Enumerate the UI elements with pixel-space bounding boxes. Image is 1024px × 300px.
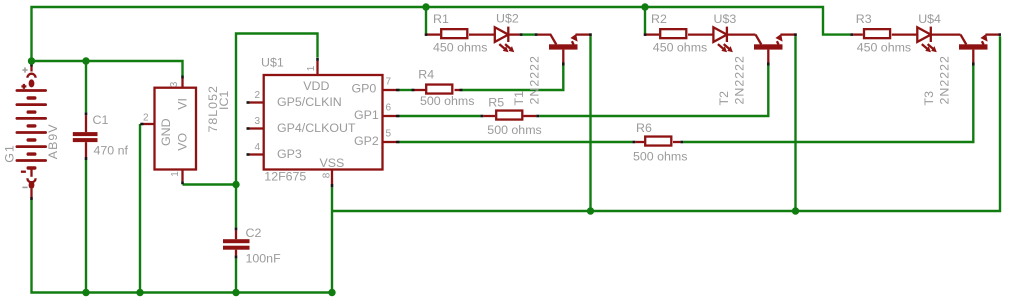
wire GP2 to R6 <box>400 141 633 143</box>
junction node C2 bottom rail <box>232 289 239 296</box>
U$1 pin 3 stub <box>250 127 264 129</box>
svg-text:GP5/CLKIN: GP5/CLKIN <box>277 95 342 109</box>
wire C1 bottom to GND <box>85 160 87 293</box>
wire drop to R2 <box>644 7 646 33</box>
wire T2 emitter drop <box>794 36 796 211</box>
junction node VSS bottom rail <box>328 289 335 296</box>
transistor T2 2N2222 <box>754 34 796 63</box>
svg-text:3: 3 <box>169 81 180 87</box>
microcontroller U$1 12F675 box <box>264 75 383 170</box>
wire U$1 VSS to GND <box>331 187 333 292</box>
svg-text:R6: R6 <box>636 121 652 135</box>
svg-text:R3: R3 <box>856 12 872 26</box>
junction node battery top <box>28 57 35 64</box>
junction node T2 emitter rail <box>792 207 799 214</box>
junction node T1 emitter rail <box>587 207 594 214</box>
wire GP0 pin tail <box>400 89 412 91</box>
resistor R1 <box>426 29 495 38</box>
svg-text:450 ohms: 450 ohms <box>857 40 911 54</box>
junction node IC1 GND rail <box>136 289 143 296</box>
svg-text:2: 2 <box>254 90 260 101</box>
svg-text:VDD: VDD <box>303 79 329 93</box>
svg-text:R1: R1 <box>433 12 449 26</box>
LED U$2 <box>495 27 520 53</box>
transistor T3 2N2222 <box>959 34 1000 63</box>
wire C2 bottom to GND <box>235 258 237 292</box>
U$1 pin 7 stub <box>383 89 397 91</box>
svg-text:1: 1 <box>170 171 181 177</box>
capacitor C2 <box>223 230 250 255</box>
svg-text:U$1: U$1 <box>261 56 284 70</box>
svg-text:2N2222: 2N2222 <box>528 55 542 104</box>
svg-text:GP4/CLKOUT: GP4/CLKOUT <box>277 121 356 135</box>
battery minus sign (net label) <box>22 186 27 188</box>
svg-text:U$4: U$4 <box>918 12 941 26</box>
svg-text:12F675: 12F675 <box>264 170 306 184</box>
svg-text:1: 1 <box>306 65 317 71</box>
wire GND bottom rail <box>32 200 333 293</box>
battery G1 AB9V <box>16 67 48 198</box>
svg-text:6: 6 <box>386 103 392 114</box>
svg-text:7: 7 <box>386 77 392 88</box>
svg-text:GP1: GP1 <box>354 108 379 122</box>
svg-text:2N2222: 2N2222 <box>938 55 952 104</box>
svg-text:GP3: GP3 <box>277 147 302 161</box>
wire IC1 GND to rail <box>139 124 141 293</box>
junction node R1 drop <box>422 3 429 10</box>
svg-text:500 ohms: 500 ohms <box>420 94 474 108</box>
wire GP1 to R5 <box>400 115 481 117</box>
wire IC1 VO to junction <box>183 183 237 185</box>
LED U$3 <box>713 27 755 53</box>
svg-text:500 ohms: 500 ohms <box>633 150 687 164</box>
IC1 pin 1 VO stub <box>181 170 183 182</box>
svg-text:C1: C1 <box>93 113 109 127</box>
svg-text:GP0: GP0 <box>352 82 377 96</box>
junction node C1 top <box>82 57 89 64</box>
svg-text:R2: R2 <box>651 12 667 26</box>
wire R4 to T1 base <box>463 66 564 91</box>
svg-text:T3: T3 <box>922 91 936 106</box>
svg-text:R4: R4 <box>418 67 434 81</box>
svg-text:IC1: IC1 <box>217 91 231 110</box>
wire net VCC9V top rail <box>32 7 851 61</box>
svg-text:G1: G1 <box>2 144 16 163</box>
IC1 pin 2 GND stub <box>144 123 155 125</box>
U$1 pin 6 stub <box>383 115 397 117</box>
svg-text:2: 2 <box>143 113 149 124</box>
svg-text:100nF: 100nF <box>246 252 282 266</box>
wire R6 to T3 base <box>683 66 973 143</box>
svg-text:3: 3 <box>254 116 260 127</box>
svg-text:GND: GND <box>159 118 173 146</box>
svg-text:VSS: VSS <box>320 156 345 170</box>
svg-text:5: 5 <box>386 129 392 140</box>
U$1 pin 5 stub <box>383 141 397 143</box>
junction node VO/VDD/C2 <box>232 181 239 188</box>
svg-text:8: 8 <box>322 172 333 178</box>
svg-text:450 ohms: 450 ohms <box>653 40 707 54</box>
wire 5V net VO to U$1 VDD and C2 <box>236 34 318 228</box>
svg-text:C2: C2 <box>246 226 262 240</box>
resistor R3 <box>853 29 917 38</box>
svg-text:4: 4 <box>254 142 260 153</box>
svg-text:U$3: U$3 <box>714 12 737 26</box>
svg-text:T1: T1 <box>512 91 526 106</box>
U$1 pin 4 stub <box>250 153 264 155</box>
svg-text:VI: VI <box>176 98 190 110</box>
wire C1 top branch <box>85 61 87 112</box>
svg-text:470 nf: 470 nf <box>94 143 129 157</box>
U$1 pin 1 VDD stub <box>316 61 318 75</box>
resistor R2 <box>645 29 713 38</box>
svg-text:VO: VO <box>176 133 190 151</box>
resistor R5 <box>483 111 536 120</box>
resistor R6 <box>635 137 680 146</box>
wire drop to R1 <box>425 7 427 33</box>
wire T1 emitter drop <box>589 36 591 211</box>
LED U$4 <box>917 27 960 53</box>
svg-text:R5: R5 <box>488 96 504 110</box>
battery plus sign (net label) <box>22 67 27 72</box>
wire LED1 cathode to T1 collector <box>523 33 535 35</box>
transistor T1 2N2222 <box>538 34 591 63</box>
wire R5 to T2 base <box>539 66 768 117</box>
wire GND mid rail to emitters <box>332 36 1000 211</box>
junction node C1 bottom rail <box>82 289 89 296</box>
svg-text:U$2: U$2 <box>496 12 519 26</box>
U$1 pin 8 VSS stub <box>331 170 333 185</box>
junction node R2 drop <box>641 3 648 10</box>
svg-text:AB9V: AB9V <box>46 124 60 160</box>
svg-text:500 ohms: 500 ohms <box>487 123 541 137</box>
IC1 pin 3 VI stub <box>181 79 183 88</box>
svg-text:2N2222: 2N2222 <box>733 55 747 104</box>
svg-text:GP2: GP2 <box>354 134 379 148</box>
U$1 pin 2 stub <box>250 101 264 103</box>
capacitor C1 <box>73 115 98 157</box>
pin joint ticks <box>32 33 1002 258</box>
voltage regulator IC1 78L052 box <box>155 88 197 170</box>
svg-text:450 ohms: 450 ohms <box>433 40 487 54</box>
wire battery+ to C1 and IC1 VI <box>32 61 183 76</box>
resistor R4 <box>415 85 460 94</box>
svg-text:T2: T2 <box>717 91 731 106</box>
